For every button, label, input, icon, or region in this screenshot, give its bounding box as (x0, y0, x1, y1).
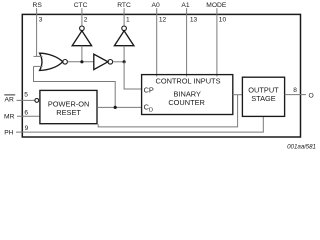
svg-text:8: 8 (293, 87, 297, 94)
svg-text:3: 3 (39, 16, 43, 23)
svg-text:CONTROL INPUTS: CONTROL INPUTS (155, 76, 220, 85)
wire pin AR, pin 5 (17, 99, 35, 101)
AR overline (4, 94, 15, 96)
svg-text:13: 13 (190, 16, 198, 23)
svg-text:MODE: MODE (206, 2, 227, 9)
svg-text:6: 6 (24, 110, 28, 117)
junction dot CD node (114, 106, 117, 109)
wire buffer output to RTC tap (113, 61, 124, 63)
buffer inverter (horizontal) triangle (94, 54, 108, 70)
wire oscillator output down and right to CP (124, 62, 142, 89)
inverter to RTC: triangle (114, 31, 133, 46)
svg-text:MR: MR (4, 114, 15, 121)
svg-text:COUNTER: COUNTER (168, 98, 205, 107)
pin A0 wire, pin 12 (156, 8, 158, 76)
svg-text:12: 12 (159, 16, 167, 23)
junction dot at CTC tap (80, 60, 83, 63)
svg-text:1: 1 (126, 16, 130, 23)
wire counter to output stage (233, 94, 243, 96)
svg-text:PH: PH (4, 129, 13, 136)
POWER-ON RESET box (40, 90, 97, 123)
svg-text:O: O (309, 93, 314, 100)
buffer inverter bubble (108, 60, 113, 65)
OUTPUT STAGE box (242, 77, 284, 116)
NOR output bubble (63, 60, 68, 65)
wire feedback from counter/output-stage node down and left to POR corner (98, 95, 237, 127)
wire pin MR, pin 6 (17, 115, 40, 117)
inverter to CTC: triangle (72, 31, 91, 46)
wire output stage to O pin, pin 8 (285, 94, 306, 96)
svg-text:001aai581: 001aai581 (287, 144, 316, 151)
svg-text:AR: AR (5, 96, 14, 103)
wire power-on reset output to CD input (97, 106, 142, 108)
inverter to RTC: bubble (122, 26, 127, 31)
svg-text:CP: CP (144, 85, 154, 94)
wire pin PH, pin 9, along bottom up into output stage (16, 116, 263, 132)
svg-text:RS: RS (33, 2, 43, 9)
wire NOR upper input stub (34, 55, 43, 57)
junction dot at RTC tap (123, 60, 126, 63)
pin RS wire, pin 3 (36, 8, 38, 56)
svg-text:A0: A0 (152, 2, 160, 9)
svg-text:10: 10 (219, 16, 227, 23)
pin RTC wire, pin 1 (123, 8, 125, 26)
svg-text:5: 5 (24, 92, 28, 99)
svg-text:9: 9 (25, 125, 29, 132)
outer border frame (22, 14, 300, 137)
svg-text:2: 2 (84, 16, 88, 23)
svg-text:RESET: RESET (56, 108, 81, 117)
wire oscillator: NOR output to buffer input, with taps (68, 61, 94, 63)
svg-text:CTC: CTC (74, 2, 88, 9)
wire CTC inverter input (81, 46, 83, 62)
pin A1 wire, pin 13 (186, 8, 188, 76)
AR input bubble (35, 99, 39, 103)
wire NOR lower input loop to CD node (34, 66, 116, 107)
pin MODE wire, pin 10 (216, 8, 218, 76)
BINARY COUNTER box (142, 75, 233, 115)
NOR gate (oscillator) (40, 53, 63, 70)
svg-text:STAGE: STAGE (251, 94, 276, 103)
pin CTC wire, pin 2 (81, 8, 83, 26)
svg-text:A1: A1 (181, 2, 189, 9)
svg-text:RTC: RTC (117, 2, 131, 9)
wire RTC inverter input (123, 46, 125, 62)
wire NOR lower input stub (34, 65, 43, 67)
inverter to CTC: bubble (80, 26, 85, 31)
